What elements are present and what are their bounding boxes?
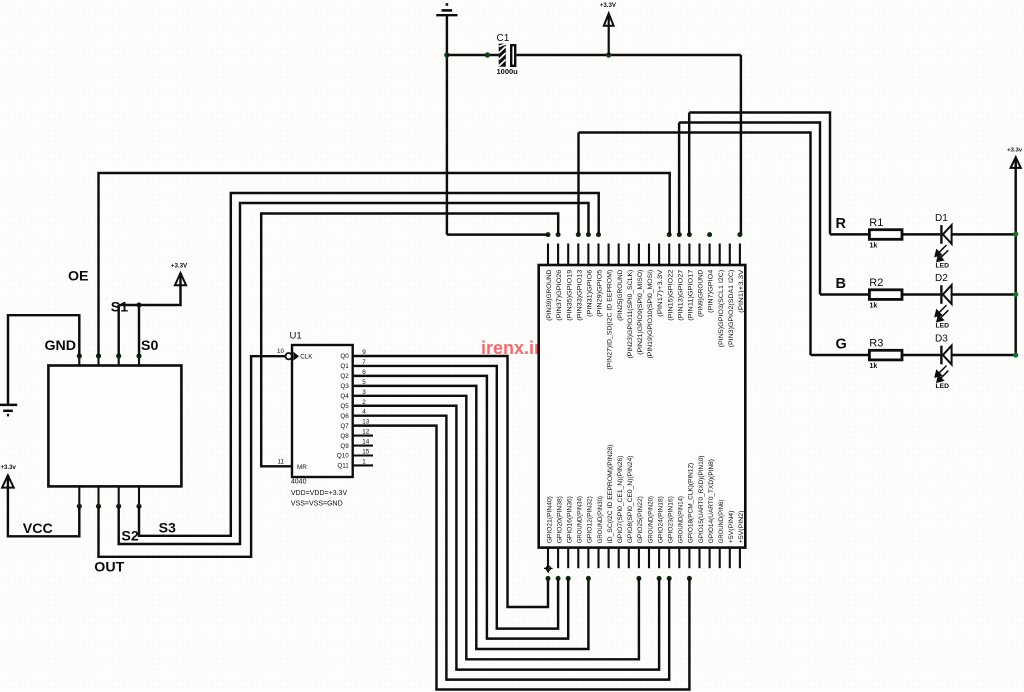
crosshair marker on GPIO21(PIN40) pin (544, 564, 553, 573)
wire Q5 to IC bottom pin (353, 406, 660, 670)
svg-text:10: 10 (277, 348, 285, 355)
wire Q6 to IC bottom pin (353, 416, 670, 680)
svg-text:(PIN17)+3.3V: (PIN17)+3.3V (657, 269, 664, 317)
svg-text:GROUND(PIN20): GROUND(PIN20) (647, 496, 654, 543)
svg-text:GPIO25(PIN22): GPIO25(PIN22) (637, 496, 644, 543)
IC top pin (PIN9)GROUND (698, 244, 705, 317)
LED D2 (cathode bar left, triangle apex left) (941, 285, 951, 304)
svg-text:S2: S2 (121, 529, 138, 545)
IC bottom pin ID_SC(I2C ID EEPROM)(PIN28) (607, 445, 614, 569)
svg-text:Q11: Q11 (337, 463, 349, 470)
wire Q4 to IC bottom pin (353, 396, 639, 660)
sensor bottom pin stubs (79, 486, 139, 506)
wire Q0 to IC bottom pin (353, 356, 549, 607)
sensor top pin dots (77, 353, 82, 358)
wire LED D1 to +3.3v rail (952, 233, 1016, 235)
svg-text:GROUND(PIN14): GROUND(PIN14) (678, 496, 685, 543)
IC top pin (PIN27)ID_SD(I2C ID EEPROM) (607, 244, 614, 370)
wire MR input from net (261, 214, 558, 467)
svg-text:B: B (836, 276, 846, 292)
wire Q7 to IC bottom pin (353, 426, 690, 690)
svg-text:C1: C1 (497, 33, 510, 44)
IC top terminal dots (546, 232, 551, 237)
svg-text:Q1: Q1 (340, 363, 349, 370)
svg-text:Q6: Q6 (340, 413, 349, 420)
wire Q1 to IC bottom pin (353, 366, 559, 629)
IC bottom pin +5V(PIN4) (728, 511, 735, 569)
svg-text:S3: S3 (159, 520, 176, 536)
svg-text:(PIN5)GPIO3(SCL1 I2C): (PIN5)GPIO3(SCL1 I2C) (718, 270, 725, 348)
sensor top pin stubs (79, 356, 139, 366)
IC top pin (PIN7)GPIO4 (708, 244, 715, 313)
svg-text:1k: 1k (870, 303, 878, 310)
sensor bottom pin dots (77, 504, 82, 509)
svg-text:Q2: Q2 (340, 373, 349, 380)
IC top pin (PIN31)GPIO6 (587, 244, 594, 317)
IC bottom pin GPIO12(PIN32) (587, 496, 594, 568)
svg-text:Q10: Q10 (337, 453, 349, 460)
IC top pin (PIN23)GPIO11(SPI0_SCLK) (627, 244, 634, 359)
svg-text:Q9: Q9 (340, 443, 349, 450)
wire S2 net: down-right-up-right to GPIO6(PIN31) (119, 203, 589, 544)
svg-text:(PIN23)GPIO11(SPI0_SCLK): (PIN23)GPIO11(SPI0_SCLK) (627, 270, 634, 359)
svg-text:CLK: CLK (300, 354, 313, 361)
wire GND net: sensor GND up-left to ground symbol (8, 315, 79, 404)
svg-text:(PIN27)ID_SD(I2C ID EEPROM): (PIN27)ID_SD(I2C ID EEPROM) (607, 270, 614, 370)
svg-text:GPIO16(PIN36): GPIO16(PIN36) (567, 496, 574, 543)
wire GPIO feed for B channel (679, 123, 820, 295)
svg-text:GND: GND (44, 338, 76, 354)
wire S3 net: down-right-up-right to GPIO5(PIN29) (139, 193, 599, 536)
svg-text:D1: D1 (935, 213, 948, 224)
svg-text:Q8: Q8 (340, 433, 349, 440)
svg-text:MR: MR (297, 464, 307, 471)
IC bottom pin GPIO21(PIN40) (546, 496, 553, 572)
wire resistor to LED D3 (902, 354, 940, 356)
svg-text:(PIN25)GROUND: (PIN25)GROUND (617, 269, 624, 320)
svg-text:11: 11 (277, 459, 284, 466)
wire y=55 from ground vertical to C1 left plate (447, 54, 499, 56)
svg-text:GPIO8(SPI0_CE0_N)(PIN24): GPIO8(SPI0_CE0_N)(PIN24) (627, 456, 634, 544)
resistor R3 (869, 350, 902, 360)
svg-text:Q0: Q0 (340, 353, 349, 360)
svg-text:1000u: 1000u (497, 67, 519, 76)
svg-text:+5V(PIN4): +5V(PIN4) (728, 511, 735, 544)
power +3.3v (VCC) (2, 475, 14, 487)
svg-text:LED: LED (936, 383, 950, 390)
wire R row to resistor (830, 233, 869, 235)
node junction S0/S1 +3.3V (136, 302, 141, 307)
svg-text:U1: U1 (290, 331, 302, 342)
resistor R1 (869, 230, 902, 240)
svg-text:Q7: Q7 (340, 423, 349, 430)
svg-text:(PIN31)GPIO6: (PIN31)GPIO6 (587, 269, 594, 317)
svg-text:1k: 1k (870, 363, 878, 370)
wire S1 stub to +3.3V node (117, 305, 119, 356)
wire resistor to LED D1 (902, 233, 940, 235)
node junction under +3.3V arrow (606, 52, 611, 57)
svg-text:VDD=VDD=+3.3V: VDD=VDD=+3.3V (291, 490, 348, 497)
wire +3.3V arrow stem (608, 14, 610, 56)
wire VCC net to +3.3v arrow (8, 475, 79, 536)
svg-text:(PIN39)GROUND: (PIN39)GROUND (546, 269, 553, 320)
svg-text:D3: D3 (935, 334, 948, 345)
svg-text:(PIN3)GPIO2(SDA1 I2C): (PIN3)GPIO2(SDA1 I2C) (728, 270, 735, 348)
svg-text:GPIO18(PCM_CLK)(PIN12): GPIO18(PCM_CLK)(PIN12) (688, 463, 695, 544)
IC bottom pin GROUND(PIN6) (718, 500, 725, 569)
wire ground rail to IC top pin GROUND(PIN39) (447, 233, 548, 235)
IC bottom pin GPIO8(SPI0_CE0_N)(PIN24) (627, 456, 634, 569)
ground (left) (0, 405, 17, 415)
sensor module body (TCS3200) (48, 366, 181, 487)
wire GPIO feed for R channel (689, 113, 830, 235)
wire R feed down to GPIO17(PIN11) (688, 113, 690, 235)
IC bottom pin GPIO15(UART0_RXD)(PIN10) (698, 456, 705, 569)
IC top pin (PIN17)+3.3V (657, 244, 664, 317)
svg-text:OE: OE (68, 269, 89, 285)
IC bottom pin GPIO20(PIN38) (556, 496, 563, 568)
IC top pin (PIN13)GPIO27 (677, 244, 684, 321)
power +3.3V (S0/S1) (175, 273, 186, 285)
svg-text:(PIN7)GPIO4: (PIN7)GPIO4 (708, 269, 715, 313)
LED arrows D2 (935, 305, 948, 321)
svg-text:D2: D2 (935, 273, 948, 284)
IC bottom pin +5V(PIN2) (738, 511, 745, 569)
wire G row to resistor (811, 354, 870, 356)
IC top pin (PIN1)+3.3V (738, 244, 745, 313)
wire LED D2 to +3.3v rail (952, 293, 1016, 295)
node junction left of C1 (485, 52, 490, 57)
IC bottom pin GPIO14(UART0_TXD)(PIN8) (708, 459, 715, 568)
LED arrows D1 (935, 245, 948, 261)
svg-text:ID_SC(I2C ID EEPROM)(PIN28): ID_SC(I2C ID EEPROM)(PIN28) (607, 445, 614, 544)
LED arrows D3 (935, 366, 948, 382)
U1 Q9 stub (353, 444, 374, 446)
wire G feed down to GPIO13(PIN33) (577, 133, 579, 235)
svg-text:(PIN11)GPIO17: (PIN11)GPIO17 (688, 269, 695, 321)
IC top pin (PIN5)GPIO3(SCL1 I2C) (718, 244, 725, 348)
capacitor C1 (polarized, 1000u) (499, 44, 516, 67)
wire ground stem down to +3.3V rail wire (446, 16, 448, 235)
svg-text:1k: 1k (870, 242, 878, 249)
node junction at (447,55) (444, 52, 449, 57)
svg-text:+3.3v: +3.3v (1007, 147, 1023, 153)
IC top pin (PIN11)GPIO17 (688, 244, 695, 321)
svg-text:GROUND(PIN30): GROUND(PIN30) (597, 496, 604, 543)
node rail-G junction (1013, 352, 1018, 357)
svg-text:R2: R2 (869, 277, 883, 289)
wire +3.3v right rail (1014, 157, 1016, 355)
IC bottom pin GPIO23(PIN16) (668, 496, 675, 568)
IC bottom terminal dots (546, 576, 551, 581)
node rail-B junction (1013, 292, 1018, 297)
svg-text:R: R (836, 216, 847, 232)
svg-text:R1: R1 (869, 217, 883, 229)
svg-text:VSS=VSS=GND: VSS=VSS=GND (291, 501, 343, 508)
svg-text:G: G (836, 337, 847, 353)
IC top pin (PIN15)GPIO22 (667, 244, 674, 321)
svg-text:GPIO24(PIN18): GPIO24(PIN18) (657, 496, 664, 543)
wire Q3 to IC bottom pin (353, 386, 589, 649)
LED D3 (cathode bar left, triangle apex left) (941, 346, 951, 365)
wire S0 stub to +3.3V node (138, 305, 140, 356)
svg-text:(PIN9)GROUND: (PIN9)GROUND (698, 269, 705, 316)
ground (top, inverted symbol) (436, 5, 457, 16)
wire LED D3 to +3.3v rail (952, 354, 1016, 356)
IC top pin (PIN29)GPIO5 (597, 244, 604, 317)
IC top pin (PIN39)GROUND (546, 244, 553, 321)
IC top pin (PIN25)GROUND (617, 244, 624, 321)
svg-text:GROUND(PIN6): GROUND(PIN6) (718, 500, 725, 544)
U1 Q11 stub (353, 464, 374, 466)
svg-text:Q3: Q3 (340, 383, 349, 390)
IC bottom pin GPIO18(PCM_CLK)(PIN12) (688, 463, 695, 568)
svg-text:(PIN33)GPIO13: (PIN33)GPIO13 (576, 269, 583, 321)
svg-text:+3.3v: +3.3v (0, 464, 16, 471)
svg-text:GPIO7(SPI0_CE1_N)(PIN26): GPIO7(SPI0_CE1_N)(PIN26) (617, 456, 624, 544)
svg-text:GPIO23(PIN16): GPIO23(PIN16) (668, 496, 675, 543)
wire y=55 from C1 right plate to +3.3V drop of PIN1 (517, 54, 741, 56)
svg-text:(PIN19)GPIO10(SPI0_MOSI): (PIN19)GPIO10(SPI0_MOSI) (647, 270, 654, 359)
wire B row to resistor (820, 293, 869, 295)
power +3.3v (right rail) (1011, 157, 1021, 168)
IC top pin (PIN21)GPIO9(SPI0_MISO) (637, 244, 644, 355)
power +3.3V (top) (604, 14, 614, 26)
svg-text:(PIN29)GPIO5: (PIN29)GPIO5 (597, 269, 604, 317)
wire resistor to LED D2 (902, 293, 940, 295)
IC top pin (PIN35)GPIO19 (566, 244, 573, 321)
svg-text:GPIO20(PIN38): GPIO20(PIN38) (556, 496, 563, 543)
wire Q2 to IC bottom pin (353, 376, 569, 639)
svg-text:Q4: Q4 (340, 393, 349, 400)
svg-text:GROUND(PIN34): GROUND(PIN34) (577, 496, 584, 543)
node rail-R junction (1013, 231, 1018, 236)
op IC U1 4040 body (292, 345, 353, 477)
wire OE net: sensor OE up, across y=173 to GPIO22(PIN15) (99, 173, 670, 356)
wire from +3.3V net down to IC top pin 20 (PIN1 +3.3V) (740, 55, 742, 235)
svg-text:+5V(PIN2): +5V(PIN2) (738, 511, 745, 544)
wire +3.3V feed for S0/S1 (119, 273, 181, 305)
IC U2 Raspberry Pi GPIO header body (539, 265, 746, 548)
svg-text:LED: LED (936, 323, 950, 330)
svg-text:(PIN37)GPIO26: (PIN37)GPIO26 (556, 269, 563, 321)
IC bottom pin GROUND(PIN20) (647, 496, 654, 568)
IC bottom pin GPIO25(PIN22) (637, 496, 644, 568)
svg-text:GPIO14(UART0_TXD)(PIN8): GPIO14(UART0_TXD)(PIN8) (708, 459, 715, 543)
svg-text:GPIO15(UART0_RXD)(PIN10): GPIO15(UART0_RXD)(PIN10) (698, 456, 705, 544)
svg-text:4040: 4040 (291, 479, 307, 486)
IC bottom pin GROUND(PIN30) (597, 496, 604, 568)
IC bottom pin GPIO7(SPI0_CE1_N)(PIN26) (617, 456, 624, 569)
svg-text:Q5: Q5 (340, 403, 349, 410)
U1 CLK inversion bubble (286, 353, 292, 359)
svg-text:(PIN1)+3.3V: (PIN1)+3.3V (738, 269, 745, 313)
svg-text:+3.3V: +3.3V (171, 263, 188, 270)
svg-text:S0: S0 (141, 338, 158, 354)
U1 Q8 stub (353, 435, 374, 437)
svg-text:VCC: VCC (23, 521, 53, 537)
IC bottom pin GPIO24(PIN18) (657, 496, 664, 568)
resistor R2 (869, 290, 902, 300)
svg-text:(PIN21)GPIO9(SPI0_MISO): (PIN21)GPIO9(SPI0_MISO) (637, 270, 644, 355)
svg-text:GPIO12(PIN32): GPIO12(PIN32) (587, 496, 594, 543)
svg-text:(PIN35)GPIO19: (PIN35)GPIO19 (566, 269, 573, 321)
svg-text:(PIN15)GPIO22: (PIN15)GPIO22 (667, 269, 674, 321)
wire GPIO feed for G channel (579, 133, 811, 356)
wire B feed down to GPIO27(PIN13) (678, 123, 680, 235)
svg-text:LED: LED (936, 262, 950, 269)
svg-text:OUT: OUT (94, 560, 124, 576)
svg-text:(PIN13)GPIO27: (PIN13)GPIO27 (677, 269, 684, 321)
wire OUT net: sensor OUT down-right-up to U1 CLK (99, 356, 286, 557)
svg-text:GPIO21(PIN40): GPIO21(PIN40) (546, 496, 553, 543)
IC top pin (PIN33)GPIO13 (576, 244, 583, 321)
IC bottom pin GROUND(PIN14) (678, 496, 685, 568)
svg-text:+3.3V: +3.3V (600, 2, 617, 9)
IC top pin (PIN37)GPIO26 (556, 244, 563, 321)
U1 Q10 stub (353, 454, 374, 456)
IC bottom pin GROUND(PIN34) (577, 496, 584, 568)
IC top pin (PIN19)GPIO10(SPI0_MOSI) (647, 244, 654, 359)
svg-text:R3: R3 (869, 338, 883, 350)
IC top pin (PIN3)GPIO2(SDA1 I2C) (728, 244, 735, 348)
LED D1 (cathode bar left, triangle apex left) (941, 225, 951, 244)
IC bottom pin GPIO16(PIN36) (567, 496, 574, 568)
